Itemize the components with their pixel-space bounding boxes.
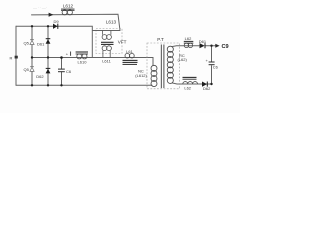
wire output top branch bbox=[173, 45, 200, 48]
svg-text:L610: L610 bbox=[78, 59, 88, 64]
svg-text:C6: C6 bbox=[66, 69, 72, 74]
svg-text:D62: D62 bbox=[36, 74, 44, 79]
wire top rail 2 bbox=[16, 26, 92, 57]
svg-text:L611: L611 bbox=[102, 58, 111, 63]
svg-text:D61: D61 bbox=[37, 41, 45, 46]
diode D62 bridge bbox=[36, 68, 50, 79]
svg-text:L62: L62 bbox=[185, 36, 192, 41]
junction output bottom branch / filter vertical bbox=[210, 83, 212, 85]
junction top rail 2 / left bridge branch bbox=[31, 25, 33, 27]
arrow on rail 1 bbox=[49, 13, 54, 17]
svg-text:— ·· —·: — ·· —· bbox=[33, 5, 47, 10]
svg-text:Q5: Q5 bbox=[24, 41, 30, 46]
arrow output C9 bbox=[215, 44, 219, 48]
wire bottom rail bbox=[16, 84, 152, 86]
inductor L610 bbox=[76, 52, 88, 64]
inductor L62 bbox=[184, 36, 194, 48]
svg-text:L62: L62 bbox=[184, 86, 191, 91]
junction dc rail / right bridge branch bbox=[47, 56, 49, 58]
wire output right vertical bbox=[211, 46, 213, 84]
wire bridge branch left bbox=[31, 26, 33, 85]
wire after diode D61 bbox=[206, 45, 216, 47]
transformer P.T dashed box bbox=[147, 43, 180, 89]
svg-text:(L62): (L62) bbox=[178, 57, 188, 62]
junction bottom rail / left bridge branch bbox=[31, 84, 33, 86]
junction top rail 2 / right bridge branch bbox=[47, 25, 49, 27]
svg-text:L613: L613 bbox=[106, 20, 117, 25]
inductor L63 bbox=[183, 77, 198, 90]
junction bottom rail / right bridge branch bbox=[47, 84, 49, 86]
diode D61 bridge bbox=[37, 39, 50, 47]
transformer VFT dashed box bbox=[96, 29, 122, 54]
svg-text:D9: D9 bbox=[53, 19, 59, 24]
wire output bottom branch bbox=[173, 83, 212, 84]
svg-text:(L612): (L612) bbox=[135, 73, 147, 78]
transformer P.T bbox=[151, 37, 173, 88]
svg-text:R: R bbox=[10, 55, 13, 60]
capacitor C62 bbox=[206, 58, 219, 70]
wire top rail 1 bbox=[32, 14, 121, 30]
junction output top branch / filter vertical bbox=[210, 45, 212, 47]
diode D9 bbox=[53, 19, 59, 29]
inductor L614 bbox=[123, 49, 138, 64]
capacitor C61 bbox=[58, 69, 72, 74]
svg-text:L612: L612 bbox=[63, 4, 74, 9]
diode D61 output bbox=[199, 39, 207, 48]
transformer VFT bbox=[92, 20, 126, 64]
svg-text:VFT: VFT bbox=[118, 39, 127, 44]
svg-text:D62: D62 bbox=[203, 86, 211, 91]
svg-text:C9: C9 bbox=[222, 44, 229, 50]
svg-text:C6: C6 bbox=[213, 65, 219, 70]
svg-text:Q5: Q5 bbox=[24, 67, 30, 72]
diode D62 output bbox=[202, 82, 211, 91]
inductor L612 bbox=[61, 4, 75, 15]
svg-text:P.T: P.T bbox=[157, 37, 164, 42]
diode Q5 upper bbox=[24, 40, 35, 46]
junction dc rail / left bridge branch bbox=[31, 56, 33, 58]
junction dc rail / capacitor branch bbox=[60, 56, 63, 59]
wire cap branch bbox=[61, 58, 63, 86]
wire left vertical bbox=[15, 26, 17, 85]
junction bottom rail / capacitor branch bbox=[60, 84, 62, 86]
diode Q5 lower bbox=[24, 67, 35, 73]
wire bridge branch right bbox=[47, 26, 49, 85]
wire dc rail bbox=[32, 58, 153, 66]
